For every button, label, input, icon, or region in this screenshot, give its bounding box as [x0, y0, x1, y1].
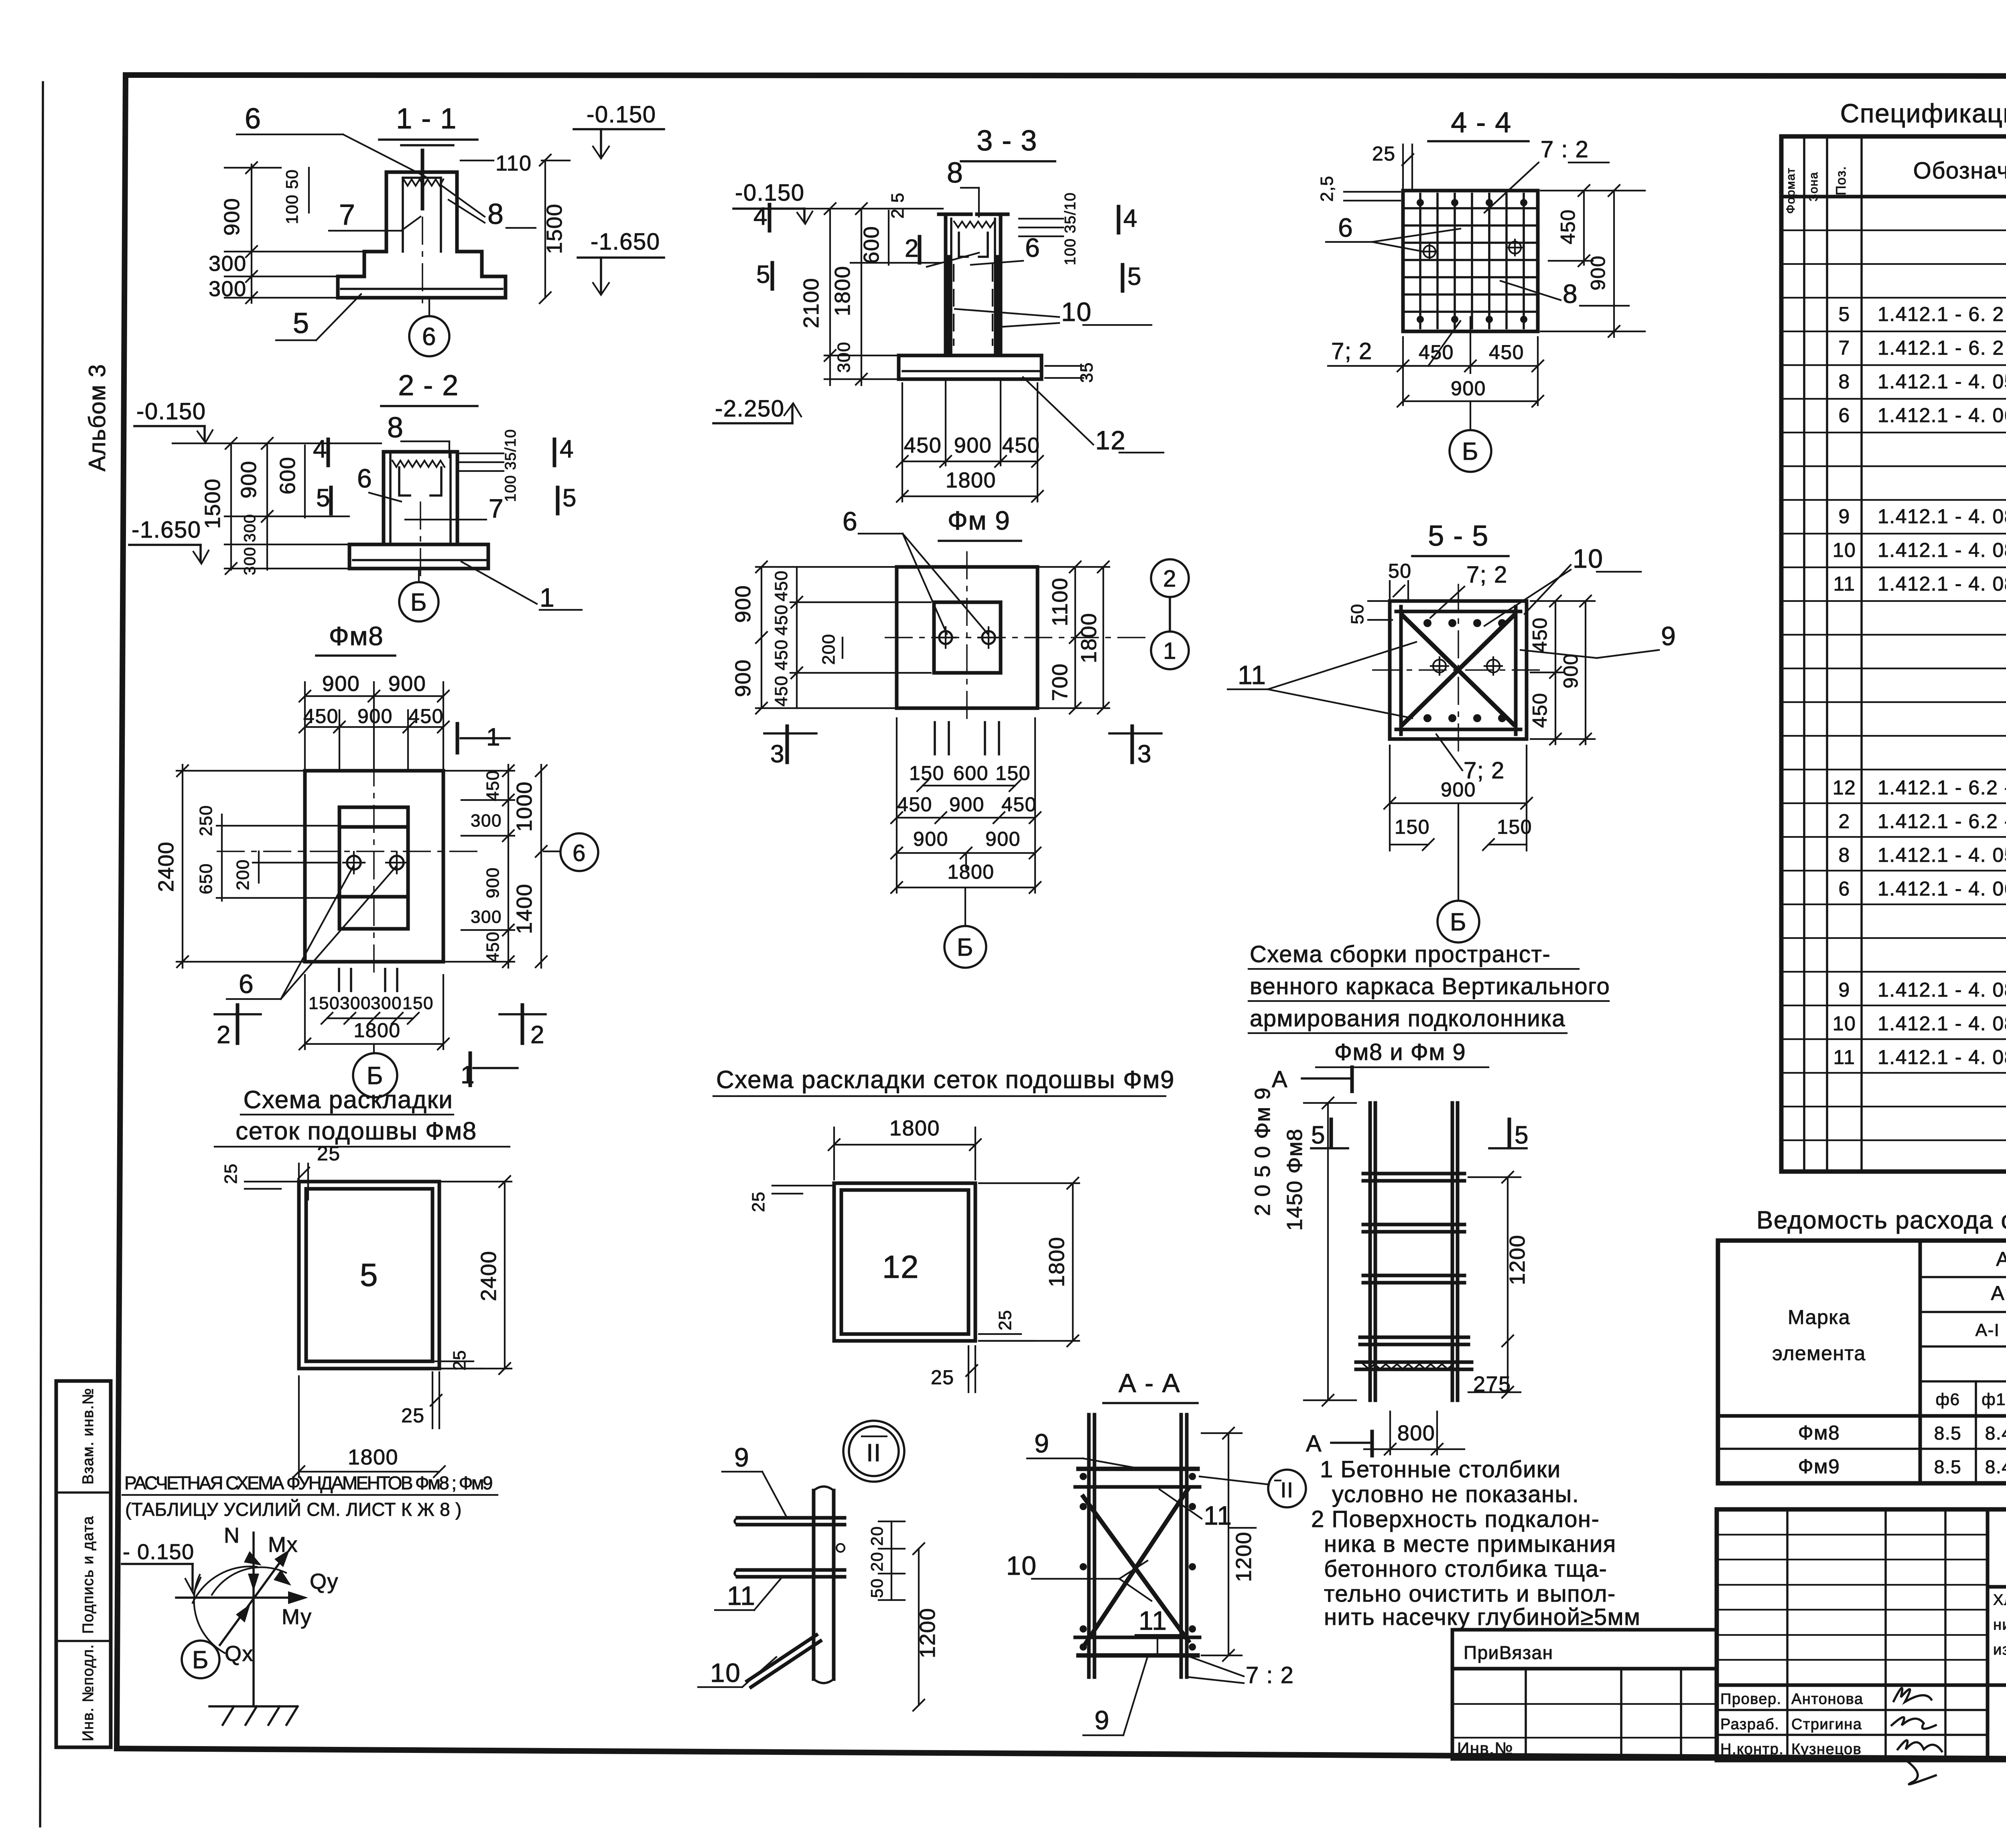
- svg-text:2 5: 2 5: [888, 192, 908, 219]
- svg-text:6: 6: [1338, 213, 1353, 242]
- svg-text:1.412.1 - 6. 2 - 1: 1.412.1 - 6. 2 - 1: [1878, 303, 2006, 325]
- foundation stepped outline: [338, 172, 506, 298]
- svg-text:900: 900: [388, 672, 426, 696]
- svg-text:12: 12: [1095, 425, 1126, 455]
- svg-text:N: N: [224, 1523, 240, 1547]
- svg-text:-1.650: -1.650: [132, 517, 201, 543]
- svg-text:Схема раскладки сеток подошвы: Схема раскладки сеток подошвы Фм9: [716, 1066, 1175, 1094]
- title block left grid thin rows: [1717, 1534, 1988, 1535]
- svg-text:1: 1: [540, 583, 555, 612]
- svg-text:9: 9: [1094, 1705, 1110, 1735]
- svg-text:ПриВязан: ПриВязан: [1464, 1642, 1553, 1663]
- svg-text:Б: Б: [1450, 908, 1467, 936]
- left dims: [230, 443, 232, 570]
- svg-text:Фм9: Фм9: [1798, 1455, 1840, 1478]
- svg-text:8: 8: [1563, 279, 1578, 309]
- svg-text:200: 200: [233, 859, 253, 890]
- specification table: Спецификация монолитных фундаментов: [1781, 98, 2006, 1172]
- svg-text:4 - 4: 4 - 4: [1451, 107, 1512, 139]
- axis horizontal with Qy arrow: [176, 1596, 302, 1599]
- top mesh zigzag: [954, 221, 994, 227]
- svg-text:150: 150: [1395, 816, 1430, 838]
- svg-text:6: 6: [357, 463, 372, 493]
- svg-text:А - А: А - А: [1119, 1368, 1180, 1398]
- slab: [899, 355, 1042, 379]
- svg-text:2 Поверхность подкалон-: 2 Поверхность подкалон-: [1311, 1506, 1600, 1532]
- outer footing square: [897, 567, 1038, 708]
- dims 20 20 50 1200: [879, 1521, 905, 1522]
- svg-text:1.412.1 - 4. 080: 1.412.1 - 4. 080: [1878, 979, 2006, 1001]
- svg-text:ІІ: ІІ: [1280, 1478, 1293, 1502]
- mesh end ticks below plan: [934, 722, 936, 754]
- svg-text:9: 9: [1661, 621, 1676, 651]
- svg-text:1.412.1 - 4. 080 - 02: 1.412.1 - 4. 080 - 02: [1878, 573, 2006, 595]
- svg-text:10: 10: [1833, 539, 1856, 561]
- svg-text:25: 25: [995, 1310, 1015, 1330]
- svg-text:1200: 1200: [916, 1608, 940, 1658]
- mesh grid horizontals: [1405, 207, 1535, 209]
- svg-text:1200: 1200: [1505, 1235, 1529, 1285]
- column rect: [339, 807, 408, 929]
- detail circle II: [843, 1421, 904, 1482]
- svg-text:450: 450: [772, 675, 791, 707]
- svg-text:4: 4: [753, 203, 768, 230]
- svg-text:1800: 1800: [946, 468, 996, 492]
- svg-text:300: 300: [241, 546, 259, 575]
- mesh square outline: [1403, 191, 1538, 331]
- bolt symbols: [1423, 246, 1435, 258]
- svg-text:Спецификация монолитных фунд: Спецификация монолитных фундаментов: [1840, 98, 2006, 128]
- svg-text:900: 900: [1559, 653, 1582, 688]
- square outline: [1390, 601, 1527, 739]
- svg-text:150: 150: [402, 993, 434, 1013]
- svg-text:6: 6: [245, 103, 262, 135]
- svg-text:нить насечку глубиной≥5мм: нить насечку глубиной≥5мм: [1324, 1604, 1641, 1630]
- svg-text:Мх: Мх: [268, 1533, 298, 1557]
- svg-text:25: 25: [749, 1191, 768, 1212]
- stakan void bracket: [399, 467, 441, 496]
- pos circle Б: [1450, 430, 1491, 472]
- spec table column lines: [1803, 136, 1805, 1172]
- svg-text:5: 5: [1127, 263, 1142, 290]
- svg-text:3: 3: [1137, 740, 1152, 768]
- svg-text:5: 5: [562, 484, 577, 512]
- svg-text:тельно очистить и выпол-: тельно очистить и выпол-: [1324, 1581, 1616, 1607]
- centerlines: [1458, 584, 1459, 756]
- right dims column 2: [540, 765, 542, 968]
- title block (штамп): [1717, 1509, 2006, 1784]
- svg-text:25: 25: [221, 1163, 241, 1184]
- right dims 450 900: [1583, 191, 1585, 265]
- svg-text:5: 5: [293, 307, 310, 339]
- svg-text:1.412.1 - 4. 080 - 01: 1.412.1 - 4. 080 - 01: [1878, 1012, 2006, 1035]
- inner formwork verticals: [389, 452, 392, 544]
- svg-text:900: 900: [985, 828, 1021, 850]
- svg-text:1800: 1800: [889, 1116, 940, 1140]
- pos circle Б: [399, 582, 439, 621]
- svg-text:450: 450: [483, 931, 503, 963]
- svg-text:Провер.: Провер.: [1720, 1691, 1782, 1708]
- svg-text:450: 450: [408, 705, 444, 727]
- right dim 1200: [1228, 1433, 1229, 1655]
- svg-text:Взам. инв.№: Взам. инв.№: [80, 1388, 97, 1484]
- svg-text:6: 6: [1838, 404, 1850, 426]
- title block left extension: [1452, 1630, 1717, 1759]
- svg-text:1.412.1 - 4. 060: 1.412.1 - 4. 060: [1878, 404, 2006, 426]
- svg-text:450: 450: [772, 604, 791, 636]
- svg-text:900: 900: [220, 198, 244, 236]
- steel table outer border: [1718, 1241, 2006, 1483]
- bottom plate bars: [1356, 1361, 1472, 1364]
- svg-text:300: 300: [340, 993, 371, 1013]
- ladder bars top/bottom: [1396, 610, 1521, 613]
- svg-text:ф6: ф6: [1936, 1390, 1960, 1409]
- svg-text:-0.150: -0.150: [735, 180, 804, 206]
- svg-text:9: 9: [1838, 505, 1850, 528]
- svg-text:Фм8: Фм8: [329, 621, 384, 651]
- svg-text:4: 4: [1123, 205, 1138, 232]
- svg-text:100 35/10: 100 35/10: [1062, 192, 1079, 266]
- svg-text:11: 11: [1139, 1606, 1167, 1635]
- svg-text:150: 150: [995, 762, 1031, 784]
- svg-text:Марка: Марка: [1788, 1306, 1850, 1328]
- svg-text:1800: 1800: [830, 266, 855, 316]
- bottom dims 450 450 / 900: [1402, 337, 1404, 405]
- svg-text:1400: 1400: [512, 883, 536, 934]
- bar 11 horizontal: [737, 1568, 845, 1572]
- top mesh zigzag: [392, 461, 445, 467]
- centerlines: [885, 637, 1151, 638]
- svg-text:25: 25: [931, 1366, 954, 1389]
- svg-text:2400: 2400: [154, 841, 178, 892]
- right dims: [1074, 567, 1076, 708]
- right dim 2400: [504, 1182, 506, 1369]
- svg-text:- 0.150: - 0.150: [123, 1540, 195, 1564]
- svg-text:1.412.1 - 4. 080: 1.412.1 - 4. 080: [1878, 505, 2006, 528]
- slab bottom double line: [341, 288, 502, 290]
- svg-text:600: 600: [859, 226, 883, 264]
- footing outline: [305, 771, 443, 962]
- svg-text:50: 50: [867, 1578, 886, 1598]
- svg-text:10: 10: [1061, 297, 1092, 327]
- title block horizontals: [1988, 1585, 2006, 1589]
- svg-text:1450 Фм8: 1450 Фм8: [1283, 1128, 1307, 1231]
- rung 4 double bottom: [1360, 1336, 1468, 1339]
- svg-text:5: 5: [1515, 1121, 1529, 1149]
- svg-text:11: 11: [1238, 660, 1267, 690]
- bottom rung pair: [1075, 1636, 1200, 1639]
- svg-text:6: 6: [1838, 877, 1850, 900]
- left sidebar stamp boxes: [56, 1381, 111, 1747]
- right rail: [1180, 1415, 1183, 1677]
- anchor bolt centerline: [421, 150, 424, 209]
- svg-text:2100: 2100: [799, 278, 823, 328]
- svg-text:900: 900: [731, 585, 755, 623]
- axis circle 6: [560, 833, 598, 871]
- svg-text:450: 450: [904, 433, 942, 457]
- detail circle II with leader: [1268, 1470, 1306, 1507]
- svg-text:2 0 5 0 Фм 9: 2 0 5 0 Фм 9: [1251, 1087, 1275, 1216]
- rung 2: [1363, 1223, 1464, 1227]
- svg-text:25: 25: [450, 1350, 469, 1371]
- leader to Б: [1458, 803, 1459, 901]
- svg-text:-1.650: -1.650: [591, 229, 660, 255]
- X bracing: [1083, 1497, 1188, 1641]
- svg-text:ІІ: ІІ: [866, 1439, 881, 1467]
- svg-text:200: 200: [819, 634, 839, 665]
- svg-text:Подпись и дата: Подпись и дата: [80, 1516, 97, 1634]
- svg-text:2 - 2: 2 - 2: [398, 370, 459, 402]
- svg-text:7: 7: [489, 493, 504, 523]
- svg-text:Формат: Формат: [1784, 167, 1797, 214]
- svg-text:4: 4: [313, 435, 327, 463]
- svg-text:6: 6: [422, 323, 437, 351]
- svg-text:8: 8: [487, 198, 504, 230]
- reinforcement bars: [947, 257, 950, 353]
- svg-text:1.412.1 - 6. 2 - 3: 1.412.1 - 6. 2 - 3: [1878, 337, 2006, 359]
- svg-text:8.4: 8.4: [1985, 1456, 2006, 1477]
- svg-text:1800: 1800: [348, 1445, 398, 1469]
- svg-text:1.412.1 - 6.2 - 3: 1.412.1 - 6.2 - 3: [1878, 810, 2006, 833]
- svg-text:3: 3: [770, 740, 785, 768]
- pos circle 6: [409, 316, 449, 356]
- svg-text:300: 300: [834, 341, 854, 373]
- steel table verticals: [1919, 1241, 1922, 1483]
- svg-text:20: 20: [867, 1526, 886, 1546]
- svg-text:1500: 1500: [201, 478, 225, 529]
- svg-text:900: 900: [322, 672, 360, 696]
- svg-text:300: 300: [209, 277, 247, 301]
- svg-text:1.412.1 - 4. 050: 1.412.1 - 4. 050: [1878, 370, 2006, 393]
- pipe column: [812, 1491, 816, 1679]
- svg-text:1800: 1800: [353, 1019, 400, 1042]
- svg-text:1 - 1: 1 - 1: [396, 103, 457, 135]
- svg-text:800: 800: [1397, 1421, 1435, 1445]
- circle Б: [182, 1641, 219, 1678]
- svg-text:100 50: 100 50: [282, 169, 301, 224]
- svg-text:6: 6: [573, 840, 586, 866]
- right dim 1800: [1072, 1183, 1074, 1341]
- svg-text:венного каркаса Вертикального: венного каркаса Вертикального: [1250, 973, 1610, 999]
- bottom dims 450 900 450: [901, 383, 903, 502]
- svg-text:1: 1: [1163, 638, 1177, 664]
- svg-text:12: 12: [882, 1249, 919, 1285]
- svg-text:Qу: Qу: [310, 1570, 339, 1594]
- ground line and hatch: [209, 1705, 297, 1708]
- svg-text:900: 900: [1451, 377, 1486, 400]
- svg-text:Антонова: Антонова: [1791, 1691, 1863, 1708]
- rotation arc left: [194, 1575, 225, 1653]
- top rung pair: [1078, 1467, 1198, 1471]
- leader to Б circle: [964, 887, 966, 926]
- left dim 2050 Фм9: [1327, 1103, 1329, 1400]
- svg-text:2: 2: [217, 1021, 231, 1049]
- svg-text:9: 9: [1034, 1428, 1050, 1458]
- Mx diagonal arrow: [220, 1557, 284, 1645]
- svg-text:7; 2: 7; 2: [1331, 338, 1373, 364]
- pos circle Б: [944, 926, 986, 968]
- svg-text:9: 9: [734, 1442, 749, 1472]
- svg-text:1.412.1 - 4. 080 - 02: 1.412.1 - 4. 080 - 02: [1878, 1046, 2006, 1068]
- svg-text:1 Бетонные столбики: 1 Бетонные столбики: [1320, 1456, 1561, 1482]
- svg-text:Фм 9: Фм 9: [948, 506, 1011, 535]
- svg-text:900: 900: [1441, 778, 1476, 801]
- weld dot: [837, 1544, 845, 1552]
- svg-text:1800: 1800: [1045, 1237, 1069, 1287]
- svg-text:11: 11: [1833, 1046, 1856, 1068]
- svg-text:900: 900: [731, 659, 755, 697]
- svg-text:Инв. №подл.: Инв. №подл.: [80, 1644, 97, 1741]
- dims 100 50: [308, 168, 310, 213]
- svg-text:1000: 1000: [512, 781, 536, 832]
- svg-text:1.412.1 - 6.2 - 1: 1.412.1 - 6.2 - 1: [1878, 776, 2006, 799]
- svg-text:7 : 2: 7 : 2: [1541, 136, 1589, 162]
- ladder left rail: [1368, 1103, 1372, 1400]
- svg-text:-2.250: -2.250: [715, 396, 784, 422]
- svg-text:Б: Б: [957, 934, 974, 961]
- anchor bolts: [939, 631, 952, 644]
- rebar dots: [1423, 619, 1431, 627]
- svg-text:элемента: элемента: [1772, 1342, 1866, 1365]
- svg-text:450: 450: [772, 639, 791, 670]
- title block verticals left grid: [1786, 1509, 1789, 1760]
- svg-text:900: 900: [949, 793, 985, 816]
- svg-text:5: 5: [360, 1257, 378, 1293]
- bar 9 horizontal: [737, 1516, 845, 1520]
- svg-text:Альбом 3: Альбом 3: [84, 364, 110, 471]
- mesh sheet 12 inner rect: [841, 1190, 968, 1334]
- svg-text:8: 8: [1838, 370, 1850, 393]
- left rail: [1087, 1415, 1091, 1677]
- svg-text:300: 300: [241, 514, 259, 542]
- centerline: [420, 502, 421, 578]
- svg-text:1500: 1500: [542, 203, 566, 254]
- svg-text:650: 650: [196, 863, 216, 894]
- svg-text:Обозначение.: Обозначение.: [1913, 158, 2006, 184]
- svg-text:1.412.1 - 4. 080 - 01: 1.412.1 - 4. 080 - 01: [1878, 539, 2006, 561]
- svg-text:20: 20: [867, 1552, 886, 1572]
- svg-text:Хлораторная для обеззаражива-: Хлораторная для обеззаражива-: [1993, 1592, 2006, 1608]
- svg-text:А: А: [1306, 1431, 1322, 1457]
- svg-text:Б: Б: [367, 1062, 384, 1090]
- rail dots: [1080, 1473, 1087, 1480]
- rung 1: [1363, 1172, 1464, 1176]
- mesh sheet 12 outer rect: [834, 1183, 975, 1341]
- svg-text:армирования подколонника: армирования подколонника: [1250, 1005, 1565, 1032]
- X bracing: [1403, 616, 1513, 724]
- svg-text:Н.контр.: Н.контр.: [1720, 1741, 1784, 1758]
- spec table outer border: [1781, 136, 2006, 1172]
- svg-text:1.412.1 - 4. 060: 1.412.1 - 4. 060: [1878, 877, 2006, 900]
- svg-text:2: 2: [1838, 810, 1850, 833]
- pos circle Б: [353, 1053, 397, 1097]
- mesh sheet 5 inner rect: [306, 1189, 432, 1361]
- svg-text:300: 300: [371, 993, 402, 1013]
- svg-text:Схема сборки пространст-: Схема сборки пространст-: [1250, 941, 1551, 967]
- ladder right rail: [1451, 1103, 1454, 1400]
- centerlines: [217, 851, 481, 852]
- svg-text:ф10: ф10: [1982, 1390, 2006, 1409]
- svg-text:300: 300: [471, 811, 502, 831]
- svg-text:Му: Му: [282, 1605, 312, 1629]
- mesh grid verticals: [1419, 194, 1421, 328]
- bottom dims stack: [896, 718, 897, 893]
- svg-text:8.5: 8.5: [1934, 1456, 1961, 1477]
- svg-text:ния питьевых и сточных вод пр: ния питьевых и сточных вод про-: [1993, 1616, 2006, 1633]
- rung 3: [1363, 1274, 1464, 1277]
- svg-text:300: 300: [209, 252, 247, 276]
- axis circles 2 and 1: [1151, 559, 1189, 597]
- svg-text:25: 25: [401, 1404, 425, 1427]
- left dim 2400: [182, 765, 183, 968]
- svg-text:110: 110: [495, 151, 532, 175]
- mesh sheet 5 outer rect: [299, 1182, 439, 1369]
- svg-text:Б: Б: [410, 589, 427, 616]
- svg-text:Б: Б: [1462, 438, 1479, 465]
- stakan bracket: [959, 233, 988, 257]
- column outline: [384, 452, 457, 544]
- svg-text:4: 4: [560, 435, 574, 463]
- paper scan edge left: [40, 82, 43, 1826]
- svg-text:1800: 1800: [947, 861, 994, 883]
- svg-text:450: 450: [1001, 793, 1037, 816]
- svg-text:450: 450: [483, 770, 503, 801]
- svg-text:150: 150: [1497, 816, 1532, 838]
- svg-text:Инв.№: Инв.№: [1457, 1739, 1513, 1758]
- svg-text:8: 8: [1838, 844, 1850, 866]
- svg-text:7; 2: 7; 2: [1466, 562, 1508, 588]
- svg-text:2: 2: [905, 235, 919, 262]
- embedded mesh zigzag: [404, 179, 443, 186]
- mesh corner dots: [1417, 199, 1424, 206]
- signature squiggles: [1892, 1688, 1942, 1751]
- svg-text:1800: 1800: [1077, 613, 1101, 663]
- svg-text:РАСЧЕТНАЯ СХЕМА ФУНДАМЕНТОВ: РАСЧЕТНАЯ СХЕМА ФУНДАМЕНТОВ Фм8 ; Фм9: [124, 1472, 493, 1493]
- svg-text:7: 7: [339, 199, 356, 231]
- svg-text:Кузнецов: Кузнецов: [1791, 1741, 1862, 1758]
- centerline through footing: [422, 217, 423, 305]
- svg-text:Qх: Qх: [225, 1642, 254, 1666]
- svg-text:изводительностью 50кг хлора в: изводительностью 50кг хлора в час.: [1993, 1641, 2006, 1658]
- svg-text:1.412.1 - 4. 050: 1.412.1 - 4. 050: [1878, 844, 2006, 866]
- svg-text:Зона: Зона: [1807, 172, 1820, 201]
- svg-text:1: 1: [461, 1061, 475, 1089]
- left dims: [761, 567, 762, 708]
- svg-text:6: 6: [239, 969, 254, 999]
- svg-text:Схема раскладки: Схема раскладки: [244, 1086, 453, 1114]
- svg-text:50: 50: [1348, 603, 1367, 624]
- svg-text:8: 8: [947, 157, 964, 189]
- svg-text:10: 10: [1006, 1551, 1037, 1580]
- dim 275: [1507, 1341, 1509, 1392]
- notes text block: [1311, 1456, 1641, 1630]
- svg-text:5: 5: [756, 261, 771, 288]
- svg-text:11: 11: [1833, 573, 1856, 595]
- svg-text:900: 900: [483, 867, 503, 898]
- svg-text:5: 5: [316, 484, 331, 512]
- svg-text:2,5: 2,5: [1317, 175, 1337, 202]
- right dim 1500: [544, 160, 546, 298]
- slab: [349, 544, 488, 569]
- svg-text:10: 10: [1573, 544, 1603, 573]
- svg-text:8.4: 8.4: [1985, 1423, 2006, 1444]
- svg-text:25: 25: [317, 1142, 341, 1165]
- svg-text:450: 450: [1529, 617, 1551, 652]
- svg-text:700: 700: [1048, 663, 1072, 701]
- svg-text:3 - 3: 3 - 3: [977, 125, 1038, 157]
- left dim line: [251, 164, 252, 303]
- diagonal bar 10: [747, 1635, 816, 1681]
